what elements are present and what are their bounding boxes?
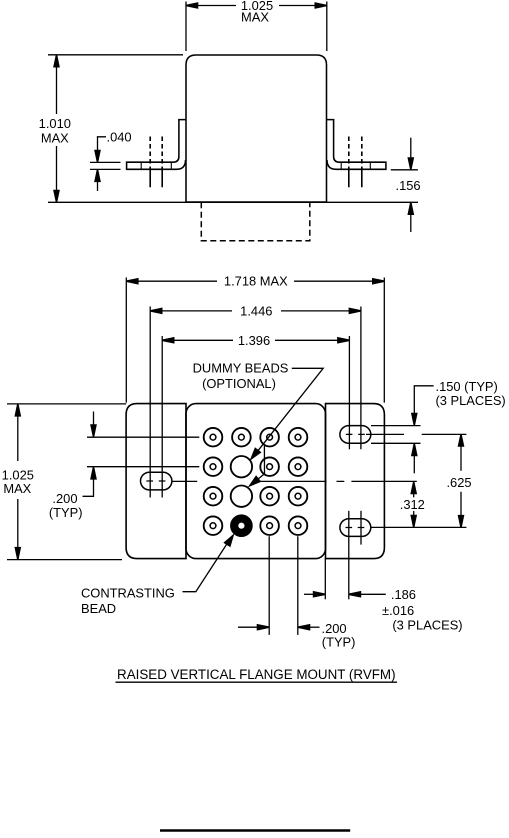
- svg-text:.040: .040: [107, 130, 132, 145]
- svg-text:(TYP): (TYP): [49, 505, 83, 520]
- dimension 1.025 MAX (lower view height): [7, 404, 126, 560]
- bottom page rule: [160, 829, 350, 832]
- upper view: right flange leads: [349, 137, 362, 188]
- svg-text:DUMMY BEADS: DUMMY BEADS: [193, 360, 289, 375]
- svg-text:1.010: 1.010: [39, 116, 71, 131]
- bead grid: row 3 (col2 = dummy bead): [204, 486, 308, 507]
- title underline: [116, 681, 398, 683]
- svg-text:1.446: 1.446: [240, 303, 272, 318]
- extension from bottom slot hole centre: [348, 511, 350, 600]
- dummy beads leader lines: [256, 368, 323, 478]
- dimension 1.446: [150, 307, 361, 498]
- extension of body right edge below flange: [324, 559, 326, 600]
- bead grid: row 4 (col2 = contrasting bead, filled): [204, 515, 308, 536]
- svg-text:(OPTIONAL): (OPTIONAL): [202, 376, 276, 391]
- svg-text:MAX: MAX: [3, 481, 31, 496]
- svg-text:.625: .625: [446, 475, 471, 490]
- body horizontal centreline: [172, 480, 417, 482]
- svg-text:.150 (TYP): .150 (TYP): [436, 379, 498, 394]
- upper view: left mounting flange (L bracket): [127, 120, 186, 170]
- svg-text:MAX: MAX: [241, 10, 269, 25]
- dimension 1.396: [162, 336, 349, 498]
- svg-text:1.718 MAX: 1.718 MAX: [224, 274, 288, 289]
- svg-text:1.396: 1.396: [238, 333, 270, 348]
- bead grid: row 1: [204, 428, 308, 447]
- dimension 1.718 MAX: [126, 278, 384, 403]
- dimension 1.025 MAX (top width): [186, 2, 327, 52]
- dimension .186 ±.016: [304, 593, 386, 595]
- top slot centreline extension: [366, 433, 466, 435]
- svg-text:.200: .200: [322, 621, 347, 636]
- lower view: central body: [186, 404, 326, 559]
- svg-text:.186: .186: [391, 587, 416, 602]
- dimension .150 TYP (slot width, right): [371, 386, 434, 474]
- svg-text:.312: .312: [400, 497, 425, 512]
- svg-text:±.016: ±.016: [382, 603, 414, 618]
- svg-text:(3 PLACES): (3 PLACES): [392, 618, 462, 633]
- svg-text:(TYP): (TYP): [322, 635, 356, 650]
- bottom slot centreline extension: [371, 526, 466, 528]
- dimension .312 (centreline to slot): [413, 493, 415, 517]
- dimension .625 (slot centres): [460, 436, 462, 526]
- right flange top slot: [340, 426, 371, 444]
- svg-text:(3 PLACES): (3 PLACES): [436, 393, 506, 408]
- right flange bottom slot: [340, 519, 371, 537]
- bead grid: row 2 (col2 = dummy bead): [204, 456, 308, 477]
- upper right flange hidden-edge ticks: [341, 162, 370, 169]
- dimension .200 TYP (left, bead row pitch): [83, 412, 200, 497]
- upper view: component body outline: [186, 55, 327, 202]
- svg-text:MAX: MAX: [41, 131, 69, 146]
- lower view: left flange plate: [126, 404, 186, 559]
- upper view: right mounting flange (L bracket): [327, 120, 386, 170]
- svg-text:.156: .156: [396, 178, 421, 193]
- dimension .040 (flange thickness): [90, 137, 121, 191]
- dimension .200 TYP (bottom, bead column pitch): [238, 626, 320, 628]
- upper left flange hidden-edge ticks: [141, 162, 171, 169]
- lower view: right flange plate: [326, 404, 385, 559]
- svg-text:CONTRASTING: CONTRASTING: [81, 586, 175, 601]
- svg-text:BEAD: BEAD: [81, 601, 116, 616]
- dimension .156 (flange height from bottom): [391, 138, 418, 232]
- dimension 1.010 MAX (left height): [48, 55, 418, 203]
- upper view: hidden lower body (dashed rectangle): [201, 202, 309, 241]
- svg-text:RAISED VERTICAL FLANGE MOUNT (: RAISED VERTICAL FLANGE MOUNT (RVFM): [117, 667, 396, 682]
- bottom extension lines from bead columns 3 and 4: [269, 536, 298, 635]
- upper view: left flange leads (hidden, dashed above flange): [150, 137, 162, 188]
- contrasting bead leader: [183, 543, 228, 592]
- left flange slot (obround with hole crosses): [141, 472, 172, 490]
